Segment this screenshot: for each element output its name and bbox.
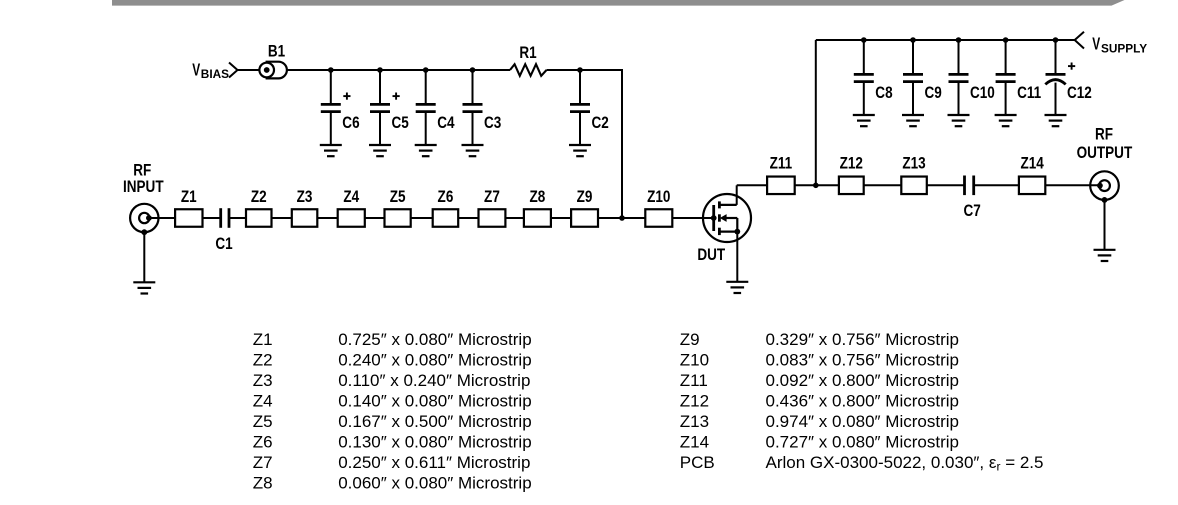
svg-text:0.250″ x 0.611″ Microstrip: 0.250″ x 0.611″ Microstrip [338,453,530,472]
wire [143,232,145,282]
ground [320,145,342,156]
junction [470,67,476,73]
microstrip Z4 [338,188,365,227]
ground [902,115,924,126]
microstrip Z7 [479,188,506,227]
svg-text:Z14: Z14 [680,432,709,451]
svg-text:C5: C5 [392,114,409,133]
connector RF OUTPUT [1077,125,1133,203]
junction [577,67,583,73]
microstrip Z12 [839,154,864,194]
microstrip Z1 [175,188,202,227]
svg-text:Z4: Z4 [343,188,359,207]
svg-text:Z13: Z13 [680,412,709,431]
svg-text:DUT: DUT [697,246,725,265]
svg-text:C2: C2 [592,114,609,133]
wire [238,69,511,71]
svg-text:C11: C11 [1017,84,1041,103]
svg-text:0.140″ x 0.080″ Microstrip: 0.140″ x 0.080″ Microstrip [338,392,531,411]
svg-text:R1: R1 [519,44,536,63]
microstrip Z14 [1019,154,1045,194]
svg-text:C10: C10 [970,84,995,103]
svg-text:PCB: PCB [680,453,715,472]
capacitor C8 [854,40,893,115]
wire [816,39,1075,41]
svg-text:V: V [1092,34,1100,54]
ground [948,115,970,126]
svg-text:C7: C7 [964,202,981,221]
svg-text:Z6: Z6 [438,188,454,207]
svg-text:Z11: Z11 [770,154,793,173]
svg-text:Z2: Z2 [253,351,273,370]
junction [861,37,867,43]
capacitor C9 [903,40,942,115]
microstrip Z2 [246,188,272,227]
svg-text:C3: C3 [484,114,501,133]
junction [377,67,383,73]
svg-text:Z7: Z7 [484,188,500,207]
junction [910,37,916,43]
ground [133,282,155,293]
svg-text:BIAS: BIAS [201,67,229,81]
svg-text:B1: B1 [268,42,285,61]
svg-text:RF: RF [133,161,151,180]
svg-text:0.727″ x 0.080″ Microstrip: 0.727″ x 0.080″ Microstrip [766,432,959,451]
svg-text:Z9: Z9 [680,330,700,349]
svg-text:Z14: Z14 [1020,154,1044,173]
microstrip Z3 [292,188,318,227]
svg-text:Z7: Z7 [253,453,273,472]
wire [737,184,965,186]
ground [853,115,875,126]
wire [736,232,738,282]
microstrip Z11 [767,154,795,194]
wire [149,217,221,219]
svg-text:Z9: Z9 [577,188,593,207]
microstrip Z13 [901,154,927,194]
wire [1104,200,1106,250]
capacitor C4 [416,70,455,145]
transistor DUT (MOSFET) [697,185,751,264]
capacitor C1 [215,208,232,253]
svg-text:V: V [192,60,200,80]
svg-text:SUPPLY: SUPPLY [1101,42,1147,56]
svg-text:Z3: Z3 [297,188,313,207]
node VBIAS [192,60,237,81]
svg-text:0.725″ x 0.080″ Microstrip: 0.725″ x 0.080″ Microstrip [338,330,531,349]
svg-text:0.092″ x 0.800″ Microstrip: 0.092″ x 0.800″ Microstrip [766,371,959,390]
svg-text:Z10: Z10 [647,188,670,207]
svg-text:Z1: Z1 [253,330,273,349]
svg-text:C4: C4 [437,114,455,133]
svg-text:0.167″ x 0.500″ Microstrip: 0.167″ x 0.500″ Microstrip [338,412,531,431]
capacitor C2 [570,70,609,145]
svg-text:Z5: Z5 [390,188,406,207]
svg-text:C12: C12 [1067,84,1092,103]
ground [462,145,484,156]
svg-text:Z5: Z5 [253,412,273,431]
ground [415,145,437,156]
svg-text:0.329″ x 0.756″ Microstrip: 0.329″ x 0.756″ Microstrip [766,330,959,349]
svg-text:Z8: Z8 [253,473,273,492]
capacitor C11 [996,40,1042,115]
capacitor C5 [370,70,409,145]
ground [1094,250,1116,261]
svg-text:Z10: Z10 [680,351,709,370]
junction [956,37,962,43]
capacitor C10 [949,40,995,115]
node VSUPPLY [1075,32,1148,56]
resistor R1 [510,44,547,76]
svg-text:Z4: Z4 [253,392,273,411]
svg-text:0.083″ x 0.756″ Microstrip: 0.083″ x 0.756″ Microstrip [766,351,959,370]
microstrip Z8 [524,188,551,227]
capacitor C7 [964,176,981,221]
parts table [253,330,1044,492]
svg-text:Z6: Z6 [253,432,273,451]
svg-text:INPUT: INPUT [123,178,164,197]
junction [423,67,429,73]
svg-text:Z13: Z13 [902,154,925,173]
svg-text:0.130″ x 0.080″ Microstrip: 0.130″ x 0.080″ Microstrip [338,432,531,451]
svg-text:0.974″ x 0.080″ Microstrip: 0.974″ x 0.080″ Microstrip [766,412,959,431]
ground [995,115,1017,126]
junction [1003,37,1009,43]
svg-text:C6: C6 [342,114,359,133]
ground [726,282,748,293]
svg-text:0.110″ x 0.240″ Microstrip: 0.110″ x 0.240″ Microstrip [338,371,530,390]
svg-text:Z1: Z1 [181,188,197,207]
wire [974,184,1100,186]
svg-text:C8: C8 [875,84,892,103]
ground [1045,115,1067,126]
ground [569,145,591,156]
svg-text:Arlon GX-0300-5022, 0.030″, εr: Arlon GX-0300-5022, 0.030″, εr = 2.5 [766,453,1044,474]
svg-text:0.436″ x 0.800″ Microstrip: 0.436″ x 0.800″ Microstrip [766,392,959,411]
capacitor C12 [1045,40,1092,115]
svg-text:C9: C9 [925,84,942,103]
svg-text:0.240″ x 0.080″ Microstrip: 0.240″ x 0.080″ Microstrip [338,351,531,370]
wire [815,40,817,185]
svg-text:Z11: Z11 [680,371,708,390]
header bar [112,0,1125,6]
ferrite bead B1 [259,42,286,78]
wire [547,70,623,218]
ground [369,145,391,156]
svg-text:Z12: Z12 [680,392,709,411]
microstrip Z5 [385,188,411,227]
junction [328,67,334,73]
junction [813,183,819,189]
capacitor C3 [463,70,502,145]
microstrip Z6 [433,188,459,227]
microstrip Z10 [645,188,672,227]
capacitor C6 [321,70,360,145]
connector RF INPUT [123,161,164,235]
svg-text:RF: RF [1095,125,1113,144]
svg-text:Z3: Z3 [253,371,273,390]
junction [619,215,625,221]
svg-text:Z2: Z2 [251,188,267,207]
svg-text:C1: C1 [215,235,232,254]
svg-text:Z12: Z12 [840,154,863,173]
junction [1053,37,1059,43]
svg-text:OUTPUT: OUTPUT [1077,144,1133,163]
svg-text:Z8: Z8 [530,188,546,207]
microstrip Z9 [571,188,598,227]
svg-text:0.060″ x 0.080″ Microstrip: 0.060″ x 0.080″ Microstrip [338,473,531,492]
wire [229,217,714,219]
